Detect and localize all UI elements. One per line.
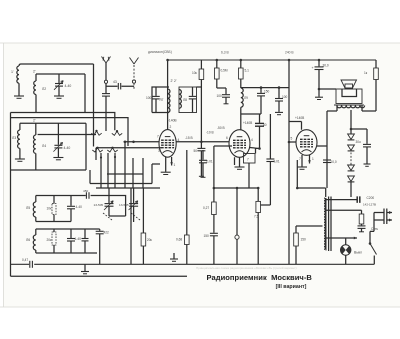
svg-text:Сеть: Сеть [371,227,378,231]
svg-text:422: 422 [104,231,110,235]
svg-text:1: 1 [312,157,314,161]
svg-text:0,5М: 0,5М [221,69,228,73]
svg-text:100: 100 [282,95,288,99]
svg-text:1: 1 [174,163,176,167]
svg-text:4-40: 4-40 [65,84,72,88]
svg-text:4: 4 [251,138,253,142]
svg-text:6,3 В: 6,3 В [221,51,229,55]
svg-text:2' 2': 2' 2' [171,79,177,83]
svg-text:+140В: +140В [243,121,252,125]
svg-text:450: 450 [83,189,88,193]
svg-text:2: 2 [170,125,172,129]
svg-text:7,5: 7,5 [254,215,259,219]
svg-text:10к: 10к [192,71,198,75]
svg-text:Л7: Л7 [160,98,164,102]
svg-text:142-127В: 142-127В [363,203,376,207]
svg-text:4-40: 4-40 [75,237,82,241]
svg-text:4-40: 4-40 [64,146,71,150]
svg-text:5: 5 [291,137,293,141]
svg-text:0,68: 0,68 [176,238,182,242]
svg-text:Л6: Л6 [26,238,30,242]
svg-text:30u: 30u [356,140,362,144]
svg-text:0,01: 0,01 [274,160,280,164]
svg-text:7: 7 [157,135,159,139]
svg-text:+140В: +140В [295,116,304,120]
svg-text:-15 В: -15 В [185,136,193,140]
svg-text:4: 4 [178,138,180,142]
svg-text:13-505: 13-505 [94,203,104,207]
svg-text:100: 100 [146,96,152,100]
svg-text:150: 150 [204,234,210,238]
svg-text:Л4: Л4 [42,144,46,148]
svg-text:Л5: Л5 [26,206,30,210]
svg-text:43: 43 [113,80,117,84]
svg-text:240 В: 240 В [285,51,294,55]
svg-text:Л8: Л8 [183,98,187,102]
svg-text:7: 7 [247,158,249,162]
svg-text:3: 3 [158,149,160,153]
svg-text:Принципиальная схема радиоприе: Принципиальная схема радиоприемника «Мос… [196,266,297,270]
svg-text:-50 В: -50 В [217,126,225,130]
svg-text:10к: 10к [47,207,53,211]
svg-text:4-40: 4-40 [76,205,83,209]
svg-text:1': 1' [11,70,14,74]
svg-text:150: 150 [301,238,307,242]
svg-text:20к: 20к [147,238,153,242]
svg-text:Л2: Л2 [42,87,46,91]
svg-text:0,27: 0,27 [203,206,209,210]
svg-text:2': 2' [33,119,36,123]
svg-text:Выкл: Выкл [354,251,362,255]
svg-text:5,1: 5,1 [245,69,250,73]
svg-text:диапазон(СВБ): диапазон(СВБ) [148,50,172,54]
svg-text:[III вариант]: [III вариант] [276,284,307,290]
svg-text:0,47: 0,47 [22,258,28,262]
svg-text:2': 2' [33,70,36,74]
svg-text:Л9: Л9 [244,96,248,100]
svg-text:-10 В: -10 В [206,131,214,135]
svg-text:+: + [312,66,314,70]
svg-text:10,0: 10,0 [331,160,337,164]
svg-text:Л3: Л3 [12,136,16,140]
svg-text:100: 100 [217,94,223,98]
svg-text:50: 50 [194,149,198,153]
svg-text:40: 40 [263,123,267,127]
svg-text:+140В: +140В [167,119,177,123]
svg-text:150: 150 [264,90,270,94]
svg-text:Радиоприемник Москвич-В: Радиоприемник Москвич-В [207,273,313,282]
svg-text:0,01: 0,01 [207,160,213,164]
svg-text:6: 6 [226,136,228,140]
svg-text:13-505: 13-505 [119,203,129,207]
svg-text:30,0: 30,0 [323,64,329,68]
svg-text:С200: С200 [367,196,375,200]
svg-text:20к: 20к [47,238,53,242]
svg-text:7: 7 [299,157,301,161]
